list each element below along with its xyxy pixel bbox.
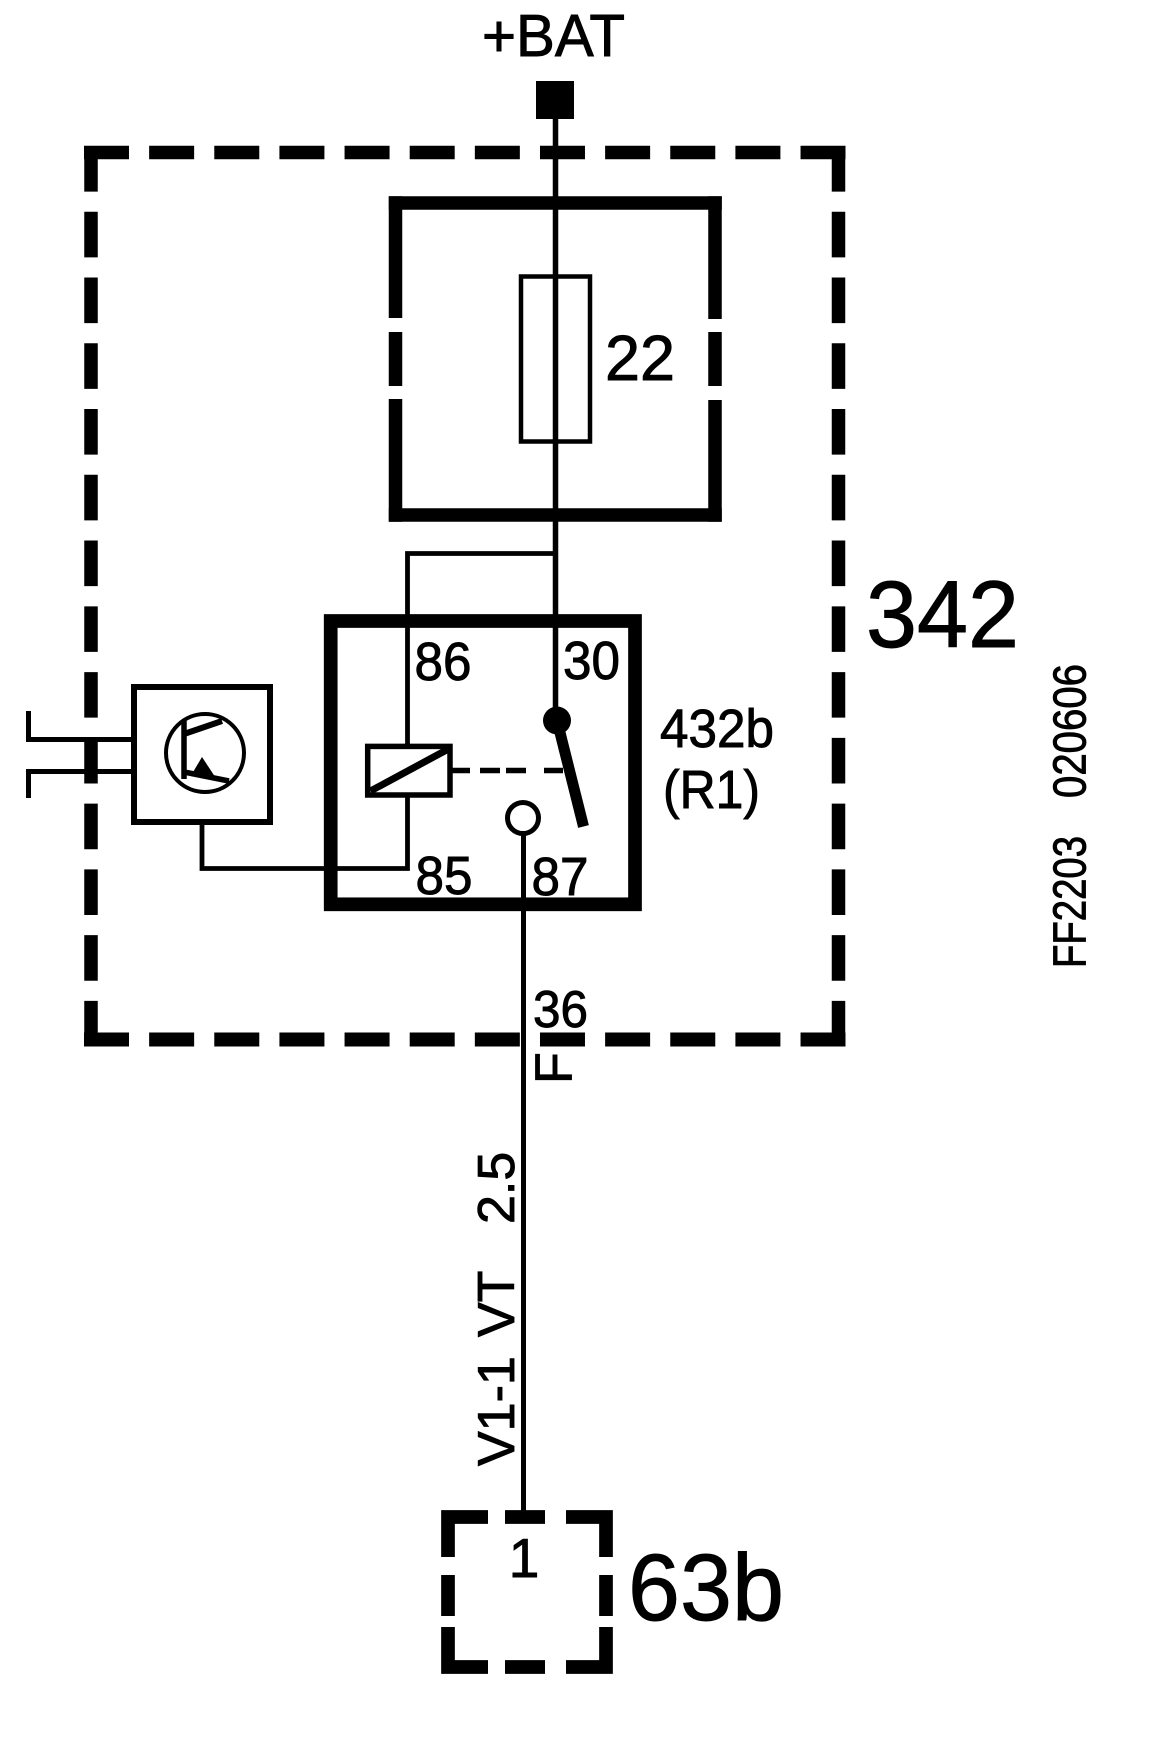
relay pivot dot pin 30 <box>543 707 571 735</box>
svg-text:FF2203: FF2203 <box>1044 836 1096 968</box>
transistor base bar <box>181 721 187 779</box>
svg-text:020606: 020606 <box>1044 664 1096 798</box>
fuse 22 symbol <box>521 277 590 442</box>
transistor box <box>134 687 270 822</box>
relay coil diagonal <box>371 750 448 792</box>
wire upper left stub <box>29 711 135 740</box>
component box 342 dashed border left <box>84 146 98 1047</box>
component box 342 dashed border right <box>832 146 846 1047</box>
wire coil to pin 85 and transistor <box>202 795 408 869</box>
wire branch to relay pin 86 <box>408 554 556 747</box>
svg-text:30: 30 <box>563 631 620 691</box>
component box 342 dashed border bottom <box>84 1033 846 1047</box>
wire +BAT to relay pin 30 <box>553 119 559 721</box>
transistor collector line <box>184 721 222 734</box>
svg-text:VT: VT <box>468 1271 526 1337</box>
connector 63b dashed box bottom middle dash <box>505 1660 545 1674</box>
fusebox outline left (with gaps) <box>389 196 403 522</box>
svg-text:1: 1 <box>509 1527 540 1589</box>
relay coil <box>368 746 450 795</box>
svg-text:22: 22 <box>605 322 675 394</box>
transistor emitter line <box>184 772 229 781</box>
svg-text:36: 36 <box>533 981 588 1039</box>
connector 63b dashed box right middle dash <box>599 1575 613 1616</box>
transistor circle <box>166 714 244 792</box>
fusebox outline top <box>389 196 722 210</box>
svg-text:85: 85 <box>416 846 473 906</box>
svg-text:87: 87 <box>532 847 589 907</box>
svg-text:63b: 63b <box>628 1535 784 1641</box>
relay 432b box <box>331 621 635 904</box>
connector 63b dashed box bottom-right corner <box>566 1627 606 1667</box>
component box 342 dashed border top <box>84 146 846 160</box>
transistor emitter arrow <box>191 757 215 776</box>
svg-text:F: F <box>526 1052 584 1084</box>
connector 63b dashed box bottom-left corner <box>448 1627 488 1667</box>
wire lower left stub <box>29 772 135 799</box>
+BAT terminal square <box>536 81 574 119</box>
svg-text:432b: 432b <box>660 699 774 759</box>
svg-text:86: 86 <box>415 632 472 692</box>
connector 63b dashed box top-right corner <box>566 1517 606 1557</box>
svg-text:+BAT: +BAT <box>482 3 625 69</box>
relay switch arm <box>557 721 584 827</box>
svg-text:2.5: 2.5 <box>468 1152 526 1224</box>
wire pin 87 to connector 63b <box>521 833 526 1517</box>
connector 63b dashed box top middle dash <box>505 1510 545 1524</box>
connector 63b dashed box left middle dash <box>441 1575 455 1616</box>
connector 63b dashed box top-left corner <box>448 1517 488 1557</box>
relay pin 87 contact circle <box>508 803 539 834</box>
svg-text:(R1): (R1) <box>663 760 760 820</box>
fusebox outline bottom <box>389 508 722 522</box>
fusebox outline right (with gaps) <box>708 196 722 522</box>
svg-text:342: 342 <box>866 562 1019 668</box>
svg-text:V1-1: V1-1 <box>468 1356 526 1466</box>
coil-switch dashed link <box>452 768 563 774</box>
